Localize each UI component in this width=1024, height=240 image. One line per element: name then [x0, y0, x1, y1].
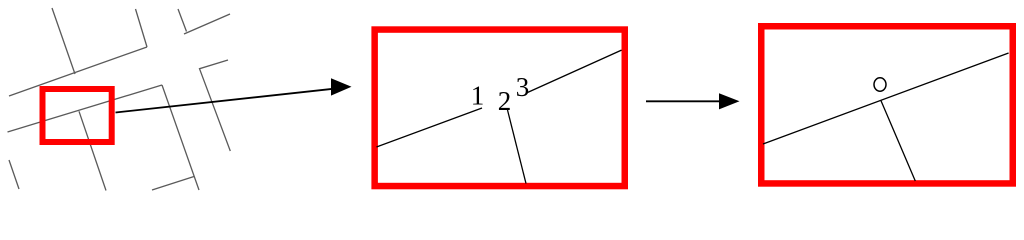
middle panel red frame: [375, 30, 625, 187]
right panel: branch line down: [881, 101, 915, 181]
arrow 2 shaft (middle to right panel): [646, 100, 720, 102]
left map: road H (long road through red box): [8, 85, 163, 132]
left map: L-shape F (corner street right): [200, 60, 231, 151]
middle panel: branch line down (from node 2): [508, 110, 527, 184]
arrow 1 shaft (map to middle panel): [116, 89, 334, 113]
left map: road B (long road upper): [9, 47, 147, 96]
svg-text:1: 1: [471, 81, 485, 111]
node circle o: [874, 78, 886, 91]
left map: street I (branch down inside red box): [79, 111, 106, 190]
svg-text:3: 3: [516, 72, 530, 102]
svg-text:2: 2: [498, 86, 512, 116]
right panel: merged diagonal line: [763, 53, 1009, 144]
arrow 1 head: [331, 78, 352, 95]
middle panel: right line segment (starts at node 3): [528, 50, 622, 92]
right panel red frame: [761, 26, 1013, 183]
left map: road D (upper right): [184, 14, 230, 34]
left map: street C (steep, joins B): [136, 9, 148, 47]
left map: street M (short isolated bottom-left): [9, 160, 19, 189]
left map: street A (top-left steep): [52, 8, 75, 74]
middle panel: left line segment (ends at node 1): [377, 108, 483, 147]
left map: street J (leg down from H corner): [162, 85, 199, 190]
arrow 2 head: [719, 93, 740, 109]
red selection rectangle on map: [43, 89, 112, 142]
left map: road L (bottom, joins J): [152, 177, 194, 191]
left map: street E (short steep, joins D): [178, 9, 187, 32]
